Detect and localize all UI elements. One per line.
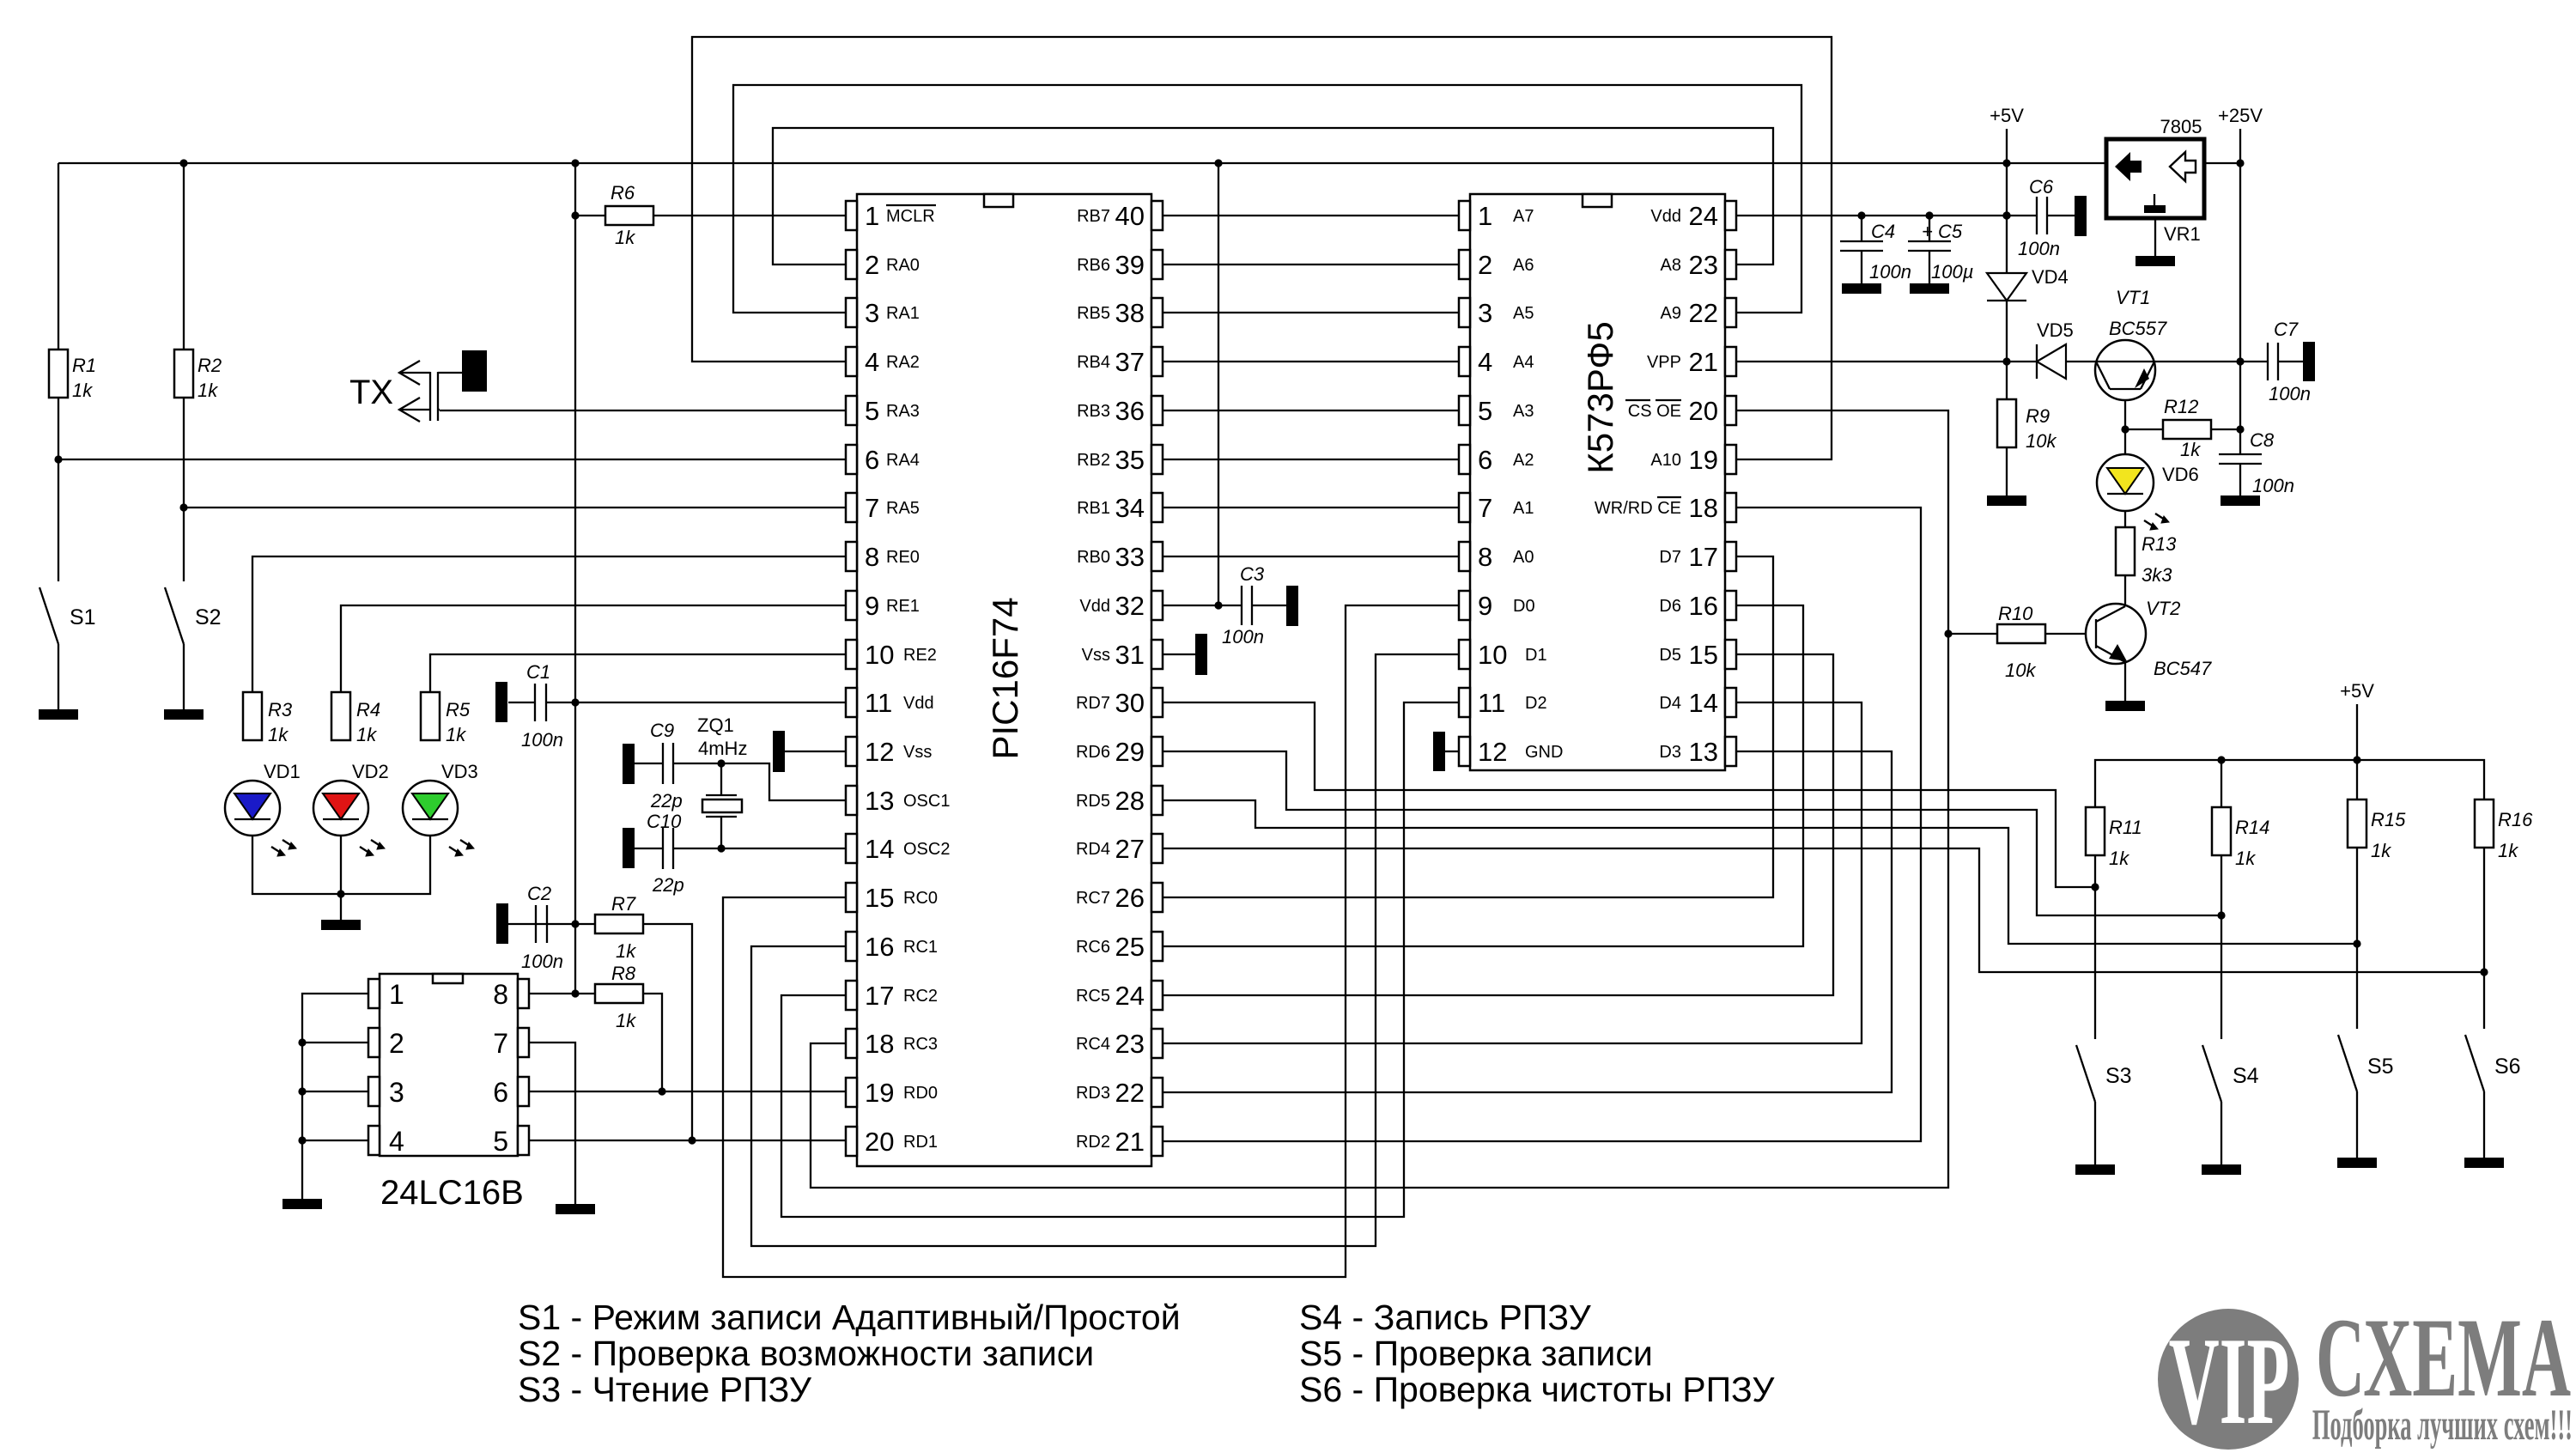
svg-text:TX: TX [349, 374, 393, 411]
U1 pin 24 RC5 [1076, 981, 1163, 1011]
svg-text:VD1: VD1 [264, 761, 301, 782]
wire R7 to RD1 row drop [643, 924, 692, 1140]
svg-text:VD6: VD6 [2162, 464, 2199, 485]
svg-text:7805: 7805 [2160, 116, 2202, 137]
U1 pin 19 RD0 [846, 1078, 938, 1108]
resistor R7 [595, 915, 643, 933]
svg-text:8: 8 [865, 542, 879, 572]
svg-text:S4: S4 [2233, 1064, 2259, 1088]
svg-text:22: 22 [1689, 298, 1718, 328]
svg-text:RC2: RC2 [903, 987, 938, 1006]
svg-text:C10: C10 [647, 811, 682, 832]
node RA2 loop wire (PIC pin4 to ROM pin19 A10) [692, 37, 1832, 459]
U1 pin 4 RA2 [846, 347, 920, 377]
U1 pin 37 RB4 [1077, 347, 1163, 377]
svg-text:A8: A8 [1661, 256, 1681, 275]
svg-text:VD4: VD4 [2032, 266, 2069, 288]
U3 pin 4 [368, 1126, 404, 1157]
node R11/S3 junction [2091, 883, 2099, 891]
wire RE0 row R3 to PIC pin8 [252, 556, 846, 692]
svg-text:OSC1: OSC1 [903, 792, 950, 811]
wire RD7 net: PIC pin30 to R11/S3 node [1162, 702, 2095, 887]
svg-text:18: 18 [865, 1029, 894, 1059]
svg-text:R3: R3 [268, 699, 293, 720]
svg-text:RA0: RA0 [886, 256, 920, 275]
wire R1 to S1 lead [58, 398, 59, 581]
svg-text:100n: 100n [2018, 238, 2060, 259]
svg-text:VR1: VR1 [2164, 223, 2201, 245]
svg-text:22p: 22p [650, 790, 683, 812]
diode VD5 [2037, 344, 2066, 379]
svg-text:21: 21 [1115, 1127, 1145, 1157]
svg-text:VD5: VD5 [2037, 319, 2074, 341]
switch S6 [2465, 1035, 2484, 1091]
svg-text:23: 23 [1689, 250, 1718, 280]
svg-text:18: 18 [1689, 493, 1718, 523]
wire Vdd24 row with C4 C5 C6 [1736, 215, 2037, 216]
svg-text:RB1: RB1 [1077, 499, 1110, 518]
svg-text:29: 29 [1115, 737, 1145, 767]
wire R11 bottom to S3 [2094, 855, 2096, 1039]
svg-text:VD3: VD3 [441, 761, 478, 782]
svg-text:C2: C2 [527, 883, 551, 904]
U2 pin 1 A7 [1459, 201, 1534, 231]
svg-text:23: 23 [1115, 1029, 1145, 1059]
svg-text:3k3: 3k3 [2142, 564, 2172, 586]
wire RC5 net: PIC pin24 to ROM pin15 D5 [1162, 654, 1833, 995]
svg-text:R16: R16 [2498, 809, 2533, 830]
svg-text:C8: C8 [2250, 429, 2275, 451]
Vss12 connector bar [773, 731, 785, 772]
svg-text:1k: 1k [268, 724, 289, 745]
wire R14 top lead [2221, 760, 2222, 807]
svg-text:100n: 100n [521, 729, 563, 751]
svg-text:4: 4 [865, 347, 879, 377]
svg-text:100n: 100n [1222, 626, 1264, 647]
svg-text:3: 3 [1478, 298, 1492, 328]
IC U3 24LC16B body [380, 974, 518, 1156]
svg-text:37: 37 [1115, 347, 1145, 377]
svg-text:R6: R6 [611, 182, 635, 204]
svg-text:C4: C4 [1871, 221, 1895, 242]
resistor R14 [2212, 807, 2231, 855]
U1 pin 21 RD2 [1076, 1127, 1163, 1157]
svg-text:1k: 1k [197, 380, 218, 401]
svg-text:C9: C9 [650, 720, 674, 741]
resistor R15 [2348, 799, 2366, 848]
svg-text:7: 7 [865, 493, 879, 523]
wire data bus RB7-RB0 to A7-A0 [1162, 215, 1459, 216]
svg-text:VD2: VD2 [352, 761, 389, 782]
svg-text:1k: 1k [2371, 840, 2391, 861]
U1 pin 5 RA3 [846, 396, 920, 426]
resistor R2 [174, 350, 193, 398]
U1 pin 11 Vdd [846, 688, 934, 718]
svg-text:D7: D7 [1659, 548, 1681, 567]
svg-text:RD3: RD3 [1076, 1084, 1110, 1103]
svg-text:S5 - Проверка записи: S5 - Проверка записи [1299, 1334, 1653, 1373]
wire RC1 loop (PIC pin16 to ROM pin10 D1) [751, 654, 1459, 1246]
svg-text:К573РФ5: К573РФ5 [1580, 321, 1620, 473]
U1 pin 40 RB7 [1077, 201, 1163, 231]
resistor R12 [2163, 420, 2211, 439]
svg-text:34: 34 [1115, 493, 1145, 523]
wire C5 leads [1929, 216, 1930, 241]
svg-text:R9: R9 [2026, 405, 2050, 427]
svg-text:1: 1 [865, 201, 879, 231]
svg-text:BC547: BC547 [2154, 658, 2212, 679]
svg-text:A10: A10 [1650, 451, 1681, 470]
svg-text:25: 25 [1115, 932, 1145, 962]
svg-text:100n: 100n [2252, 475, 2294, 496]
U1 pin 25 RC6 [1076, 932, 1163, 962]
svg-text:24LC16B: 24LC16B [380, 1174, 524, 1212]
wire +25V down to C8 [2239, 163, 2241, 454]
svg-text:5: 5 [865, 396, 879, 426]
wire R10 row to VT2 base [1948, 633, 1997, 635]
switch S3 [2076, 1045, 2095, 1102]
resistor R13 [2116, 527, 2135, 575]
svg-text:RE2: RE2 [903, 646, 937, 665]
svg-text:Vss: Vss [1082, 646, 1110, 665]
wire +5V label line and VD4 branch [2006, 129, 2008, 273]
svg-text:RE0: RE0 [886, 548, 920, 567]
crystal ZQ1 [706, 795, 737, 817]
svg-text:+25V: +25V [2218, 105, 2263, 126]
svg-text:35: 35 [1115, 445, 1145, 475]
svg-text:100n: 100n [2269, 383, 2311, 404]
capacitor C5 electrolytic [1908, 241, 1951, 251]
U1 pin 9 RE1 [846, 591, 920, 621]
wire RD2 net: PIC pin21 to ROM pin18 WR/RD CE [1162, 508, 1921, 1141]
svg-text:6: 6 [1478, 445, 1492, 475]
svg-text:8: 8 [1478, 542, 1492, 572]
wire VD6 leads [2124, 429, 2126, 454]
svg-text:+ C5: + C5 [1922, 221, 1963, 242]
svg-text:16: 16 [1689, 591, 1718, 621]
wire RC0 loop (PIC pin15 to ROM pin9 D0) [723, 605, 1459, 1277]
svg-text:D3: D3 [1659, 743, 1681, 762]
svg-text:1k: 1k [446, 724, 466, 745]
svg-text:10: 10 [1478, 640, 1507, 670]
svg-text:33: 33 [1115, 542, 1145, 572]
wire R15 top lead [2356, 760, 2358, 799]
svg-text:1k: 1k [72, 380, 93, 401]
ground 24LC16B pins1-4 [283, 1199, 322, 1209]
wire +5V bottom label line [2356, 704, 2358, 760]
ground C8 [2221, 495, 2260, 506]
LED VD2 red [313, 781, 368, 836]
U1 pin 27 RD4 [1076, 834, 1163, 864]
svg-text:D4: D4 [1659, 694, 1681, 713]
resistor R8 [595, 984, 643, 1003]
svg-text:R2: R2 [197, 355, 222, 376]
svg-text:RB2: RB2 [1077, 451, 1110, 470]
svg-text:D2: D2 [1525, 694, 1547, 713]
wire R8 to RD0 row drop [643, 994, 662, 1091]
svg-text:C1: C1 [526, 661, 550, 683]
svg-text:36: 36 [1115, 396, 1145, 426]
svg-text:1k: 1k [615, 227, 635, 248]
svg-text:9: 9 [865, 591, 879, 621]
U2 pin 12 GND [1459, 737, 1563, 767]
svg-text:40: 40 [1115, 201, 1145, 231]
wire R2 to S2 lead [183, 398, 185, 581]
U3 pin 3 [368, 1077, 404, 1108]
U1 pin 2 RA0 [846, 250, 920, 280]
svg-text:VPP: VPP [1647, 353, 1681, 372]
capacitor C3 [1242, 586, 1252, 625]
svg-text:6: 6 [865, 445, 879, 475]
svg-text:R7: R7 [611, 893, 636, 915]
svg-text:2: 2 [389, 1028, 404, 1059]
resistor R9 [1997, 399, 2016, 447]
svg-text:2: 2 [865, 250, 879, 280]
svg-text:GND: GND [1525, 743, 1563, 762]
svg-text:C3: C3 [1240, 563, 1265, 585]
svg-text:RB3: RB3 [1077, 402, 1110, 421]
wire VPP row: ROM pin21 to VD5/VT1 [1736, 361, 2037, 362]
svg-text:17: 17 [865, 981, 894, 1011]
wire R15 bottom to S5 [2356, 848, 2358, 1029]
U1 pin 17 RC2 [846, 981, 938, 1011]
svg-text:BC557: BC557 [2109, 318, 2167, 339]
wire ROM GND pin12 to bar [1445, 751, 1459, 752]
svg-text:R14: R14 [2235, 817, 2269, 838]
U1 pin 8 RE0 [846, 542, 920, 572]
U2 pin 11 D2 [1459, 688, 1547, 718]
svg-text:31: 31 [1115, 640, 1145, 670]
svg-text:Подборка лучших схем!!!: Подборка лучших схем!!! [2312, 1401, 2573, 1449]
node R15/S5 junction [2353, 939, 2360, 947]
wire R1 top lead [58, 163, 59, 350]
U1 pin 15 RC0 [846, 883, 938, 913]
svg-text:24: 24 [1115, 981, 1145, 1011]
svg-text:S1 - Режим записи Адаптивный/П: S1 - Режим записи Адаптивный/Простой [518, 1298, 1181, 1337]
svg-text:RA1: RA1 [886, 304, 920, 323]
transistor VT2 BC547 NPN [2086, 604, 2146, 664]
U1 pin 23 RC4 [1076, 1029, 1163, 1059]
svg-text:22: 22 [1115, 1078, 1145, 1108]
U1 pin 1 MCLR [846, 201, 936, 231]
U1 pin 22 RD3 [1076, 1078, 1163, 1108]
wire Vss12 to bar [785, 751, 846, 752]
U1 pin 29 RD6 [1076, 737, 1163, 767]
svg-text:R4: R4 [356, 699, 380, 720]
U2 pin 16 D6 [1659, 591, 1736, 621]
svg-text:S4 - Запись РПЗУ: S4 - Запись РПЗУ [1299, 1298, 1592, 1337]
wire RD1 row (24LC16B pin5 to PIC pin20) [527, 1140, 846, 1141]
resistor R4 [331, 692, 350, 740]
svg-text:13: 13 [865, 786, 894, 816]
resistor R16 [2475, 799, 2494, 848]
svg-text:1: 1 [389, 979, 404, 1010]
U1 pin 33 RB0 [1077, 542, 1163, 572]
wire +5V bottom rail over R11 R14 R15 R16 [2095, 760, 2484, 807]
U2 pin 6 A2 [1459, 445, 1534, 475]
svg-text:RC5: RC5 [1076, 987, 1110, 1006]
wire R13 to VT2 collector [2124, 575, 2126, 606]
wire RD5 net: PIC pin28 to R15/S5 node [1162, 800, 2357, 944]
resistor R10 [1997, 624, 2045, 643]
wire RA3 row from TX to PIC pin5 [440, 410, 846, 411]
svg-text:26: 26 [1115, 883, 1145, 913]
wire C4 leads [1861, 216, 1862, 241]
svg-text:32: 32 [1115, 591, 1145, 621]
U2 pin 23 A8 [1661, 250, 1736, 280]
svg-text:OSC2: OSC2 [903, 840, 950, 859]
ground 24LC16B pin7 [556, 1204, 595, 1214]
svg-text:11: 11 [1478, 688, 1505, 718]
U1 pin 26 RC7 [1076, 883, 1163, 913]
ground VT2 [2105, 701, 2145, 711]
IC U1 PIC16F74 body [857, 194, 1151, 1166]
wire R16 bottom to S6 [2483, 848, 2485, 1029]
svg-text:A1: A1 [1513, 499, 1534, 518]
U2 pin 21 VPP [1647, 347, 1736, 377]
wire RE1 row R4 to PIC pin9 [341, 605, 846, 692]
node RA0 loop wire (PIC pin2 to ROM pin23 A8) [773, 128, 1773, 264]
svg-text:4: 4 [389, 1126, 404, 1157]
wire RC6 net: PIC pin25 to ROM pin16 D6 [1162, 605, 1803, 946]
svg-text:11: 11 [865, 688, 892, 718]
svg-text:15: 15 [865, 883, 894, 913]
svg-text:21: 21 [1689, 347, 1718, 377]
wire 24LC16B pin7 to ground [527, 1043, 575, 1204]
svg-text:38: 38 [1115, 298, 1145, 328]
svg-text:ZQ1: ZQ1 [697, 714, 734, 736]
svg-text:30: 30 [1115, 688, 1145, 718]
svg-text:14: 14 [865, 834, 894, 864]
U1 pin 38 RB5 [1077, 298, 1163, 328]
resistor R5 [421, 692, 440, 740]
wire +5V top rail [58, 162, 2106, 164]
svg-text:A0: A0 [1513, 548, 1534, 567]
U2 pin 24 Vdd [1650, 201, 1736, 231]
switch S4 [2202, 1045, 2221, 1102]
U3 pin 5 [493, 1126, 529, 1157]
svg-text:RB5: RB5 [1077, 304, 1110, 323]
svg-text:R1: R1 [72, 355, 96, 376]
svg-text:1k: 1k [2109, 848, 2129, 869]
U2 pin 13 D3 [1659, 737, 1736, 767]
svg-text:CS OE: CS OE [1628, 402, 1681, 421]
U2 pin 22 A9 [1661, 298, 1736, 328]
U1 pin 30 RD7 [1076, 688, 1163, 718]
svg-text:+5V: +5V [1990, 105, 2024, 126]
U3 pin 1 [368, 979, 404, 1010]
U2 pin 4 A4 [1459, 347, 1534, 377]
U1 pin 20 RD1 [846, 1127, 938, 1157]
svg-text:RD4: RD4 [1076, 840, 1110, 859]
svg-text:Vdd: Vdd [1650, 207, 1681, 226]
svg-text:RD1: RD1 [903, 1133, 938, 1152]
U1 pin 10 RE2 [846, 640, 937, 670]
svg-text:RC0: RC0 [903, 889, 938, 908]
svg-text:RD5: RD5 [1076, 792, 1110, 811]
svg-text:RC1: RC1 [903, 938, 938, 957]
svg-text:RA5: RA5 [886, 499, 920, 518]
svg-text:A3: A3 [1513, 402, 1534, 421]
svg-text:S1: S1 [70, 605, 96, 629]
capacitor C1 [495, 682, 507, 722]
svg-text:28: 28 [1115, 786, 1145, 816]
LED VD6 yellow [2097, 454, 2154, 511]
wire C10 row to OSC2 [635, 848, 663, 849]
svg-text:VT1: VT1 [2116, 287, 2150, 308]
U1 pin 7 RA5 [846, 493, 920, 523]
wire RA5 row from R2/S2 to PIC pin7 [184, 507, 846, 508]
svg-text:9: 9 [1478, 591, 1492, 621]
svg-text:A4: A4 [1513, 353, 1534, 372]
svg-text:VT2: VT2 [2146, 598, 2180, 619]
svg-text:VIP: VIP [2169, 1311, 2290, 1450]
svg-text:2: 2 [1478, 250, 1492, 280]
wire RC3 loop (PIC pin18 to ROM pin20 CS/OE) [811, 410, 1948, 1188]
wire RC2 loop (PIC pin17 to ROM pin11 D2) [781, 702, 1459, 1217]
svg-text:RB6: RB6 [1077, 256, 1110, 275]
switch S2 [165, 587, 184, 644]
wire R2 top lead [183, 163, 185, 350]
svg-text:1k: 1k [616, 940, 636, 962]
wire MCLR net: R6 to PIC pin1 [575, 215, 605, 216]
svg-text:S2: S2 [195, 605, 222, 629]
svg-text:S2 - Проверка возможности запи: S2 - Проверка возможности записи [518, 1334, 1094, 1373]
resistor R3 [243, 692, 262, 740]
node RA1 loop wire (PIC pin3 to ROM pin22 A9) [733, 85, 1801, 313]
wire RA4 row from R1/S1 to PIC pin6 [58, 459, 846, 460]
wire VR1 ground [2154, 218, 2156, 256]
svg-text:1k: 1k [356, 724, 377, 745]
svg-text:RD0: RD0 [903, 1084, 938, 1103]
U1 pin 32 Vdd [1079, 591, 1163, 621]
Vss31 connector bar [1195, 634, 1207, 675]
svg-text:1k: 1k [616, 1010, 636, 1031]
wire VD4 to VPP row [2006, 301, 2008, 362]
U2 pin 8 A0 [1459, 542, 1534, 572]
svg-text:24: 24 [1689, 201, 1718, 231]
wire VR1 output to +25V line [2204, 162, 2240, 164]
svg-text:RD7: RD7 [1076, 694, 1110, 713]
U3 pin 8 [493, 979, 529, 1010]
capacitor C9 [623, 744, 635, 784]
svg-text:MCLR: MCLR [886, 207, 935, 226]
svg-text:12: 12 [865, 737, 894, 767]
transistor VT1 BC557 PNP [2095, 340, 2155, 400]
svg-text:15: 15 [1689, 640, 1718, 670]
U2 pin 9 D0 [1459, 591, 1535, 621]
svg-text:RC3: RC3 [903, 1035, 938, 1054]
wire RD6 net: PIC pin29 to R14/S4 node [1162, 751, 2221, 915]
svg-text:RC4: RC4 [1076, 1035, 1110, 1054]
wire Vdd row C1 to PIC pin11 [508, 702, 535, 703]
svg-text:17: 17 [1689, 542, 1718, 572]
svg-text:10k: 10k [2026, 430, 2057, 452]
U1 pin 34 RB1 [1077, 493, 1163, 523]
svg-text:100n: 100n [1869, 261, 1911, 283]
svg-text:C7: C7 [2274, 319, 2299, 340]
svg-text:13: 13 [1689, 737, 1718, 767]
svg-text:RB4: RB4 [1077, 353, 1110, 372]
svg-text:C6: C6 [2029, 176, 2054, 198]
svg-text:1k: 1k [2180, 439, 2201, 460]
U1 pin 3 RA1 [846, 298, 920, 328]
U1 pin 13 OSC1 [846, 786, 950, 816]
svg-text:R15: R15 [2371, 809, 2406, 830]
U1 pin 12 Vss [846, 737, 932, 767]
wire C9 row to OSC1 [635, 763, 663, 764]
svg-text:12: 12 [1478, 737, 1507, 767]
